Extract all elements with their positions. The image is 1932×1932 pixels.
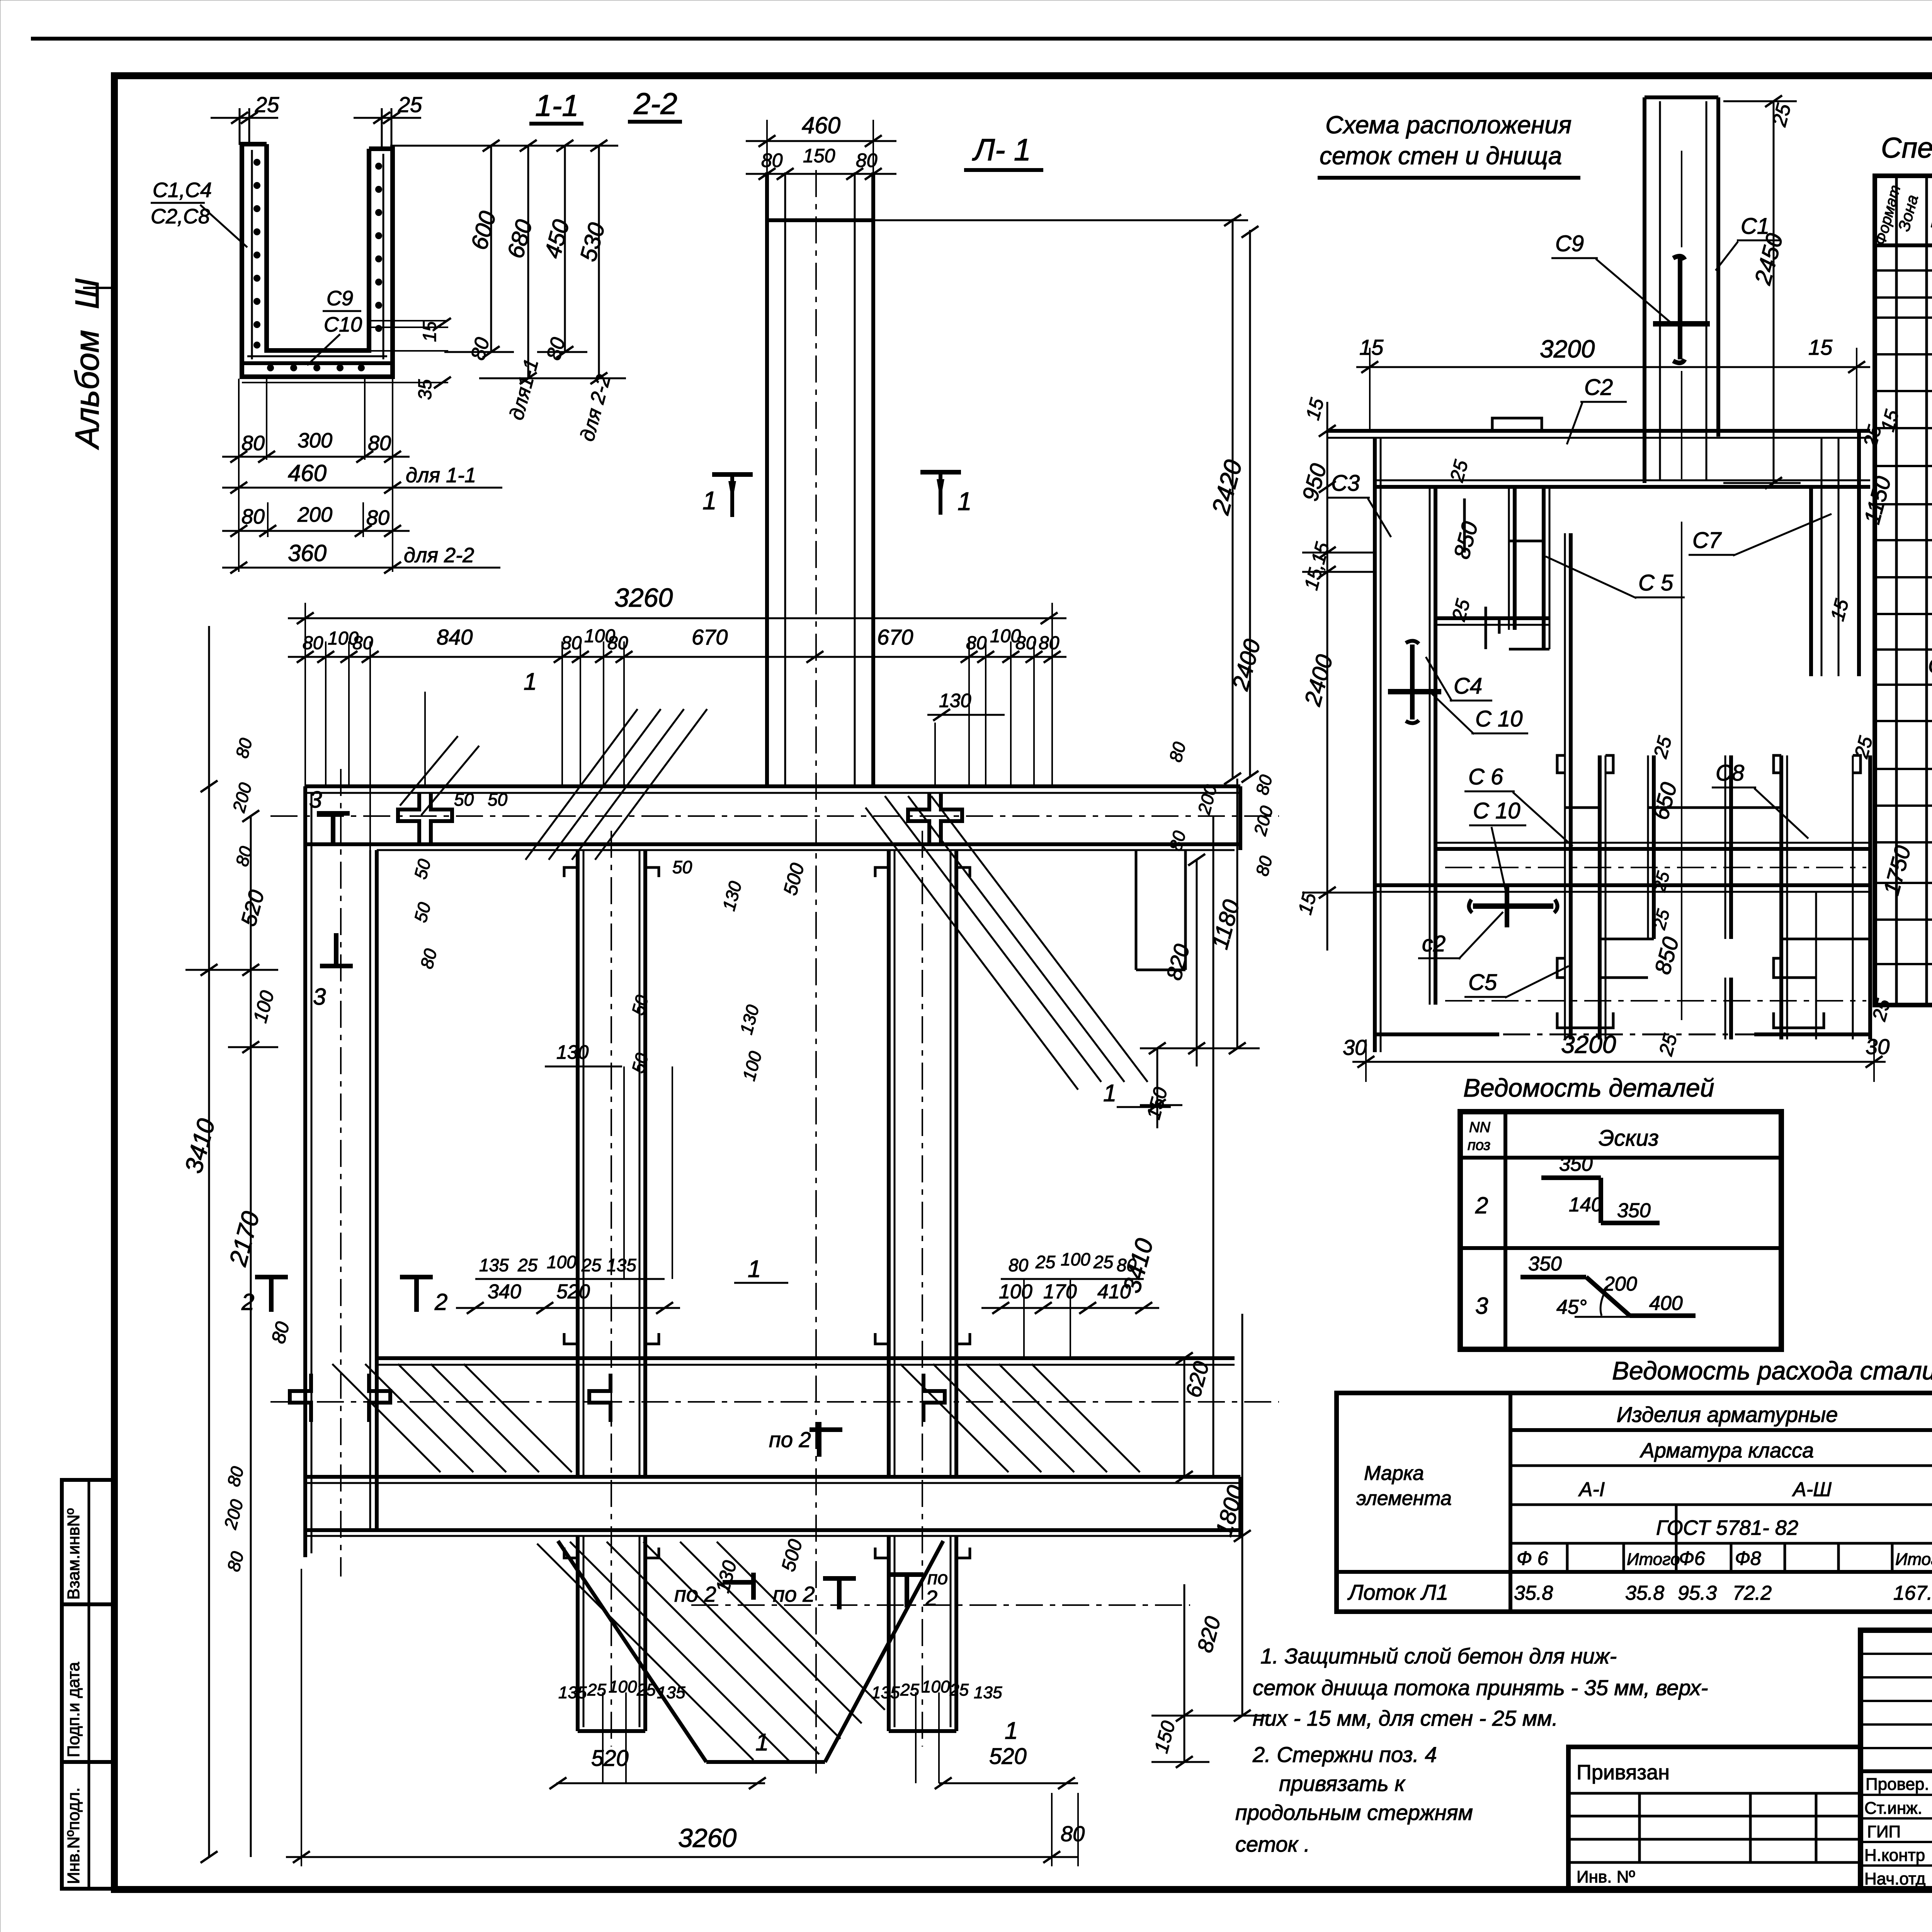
right wall verticals [1821, 438, 1823, 676]
svg-text:для1-1: для1-1 [505, 357, 543, 423]
left margin stamp boxes [62, 1480, 114, 1889]
svg-text:25: 25 [581, 1255, 602, 1275]
spec rows C1-C10 pos and GOST [1928, 322, 1932, 715]
svg-text:Схема расположения: Схема расположения [1325, 111, 1571, 139]
left wall verticals [1373, 438, 1377, 1052]
svg-text:по 2: по 2 [674, 1582, 716, 1606]
svg-text:15: 15 [420, 321, 440, 342]
svg-text:100: 100 [249, 988, 279, 1025]
svg-text:500: 500 [779, 861, 809, 898]
svg-text:100: 100 [922, 1677, 950, 1696]
svg-text:35: 35 [415, 379, 435, 400]
svg-text:Привязан: Привязан [1577, 1761, 1670, 1784]
svg-text:с2: с2 [1422, 931, 1446, 956]
svg-text:1: 1 [1005, 1718, 1018, 1744]
svg-text:80: 80 [231, 844, 256, 868]
svg-text:135: 135 [974, 1683, 1002, 1702]
svg-text:Инв. Nº: Инв. Nº [1577, 1867, 1635, 1886]
svg-text:3200: 3200 [1540, 335, 1595, 363]
svg-text:для 2-2: для 2-2 [576, 372, 615, 444]
svg-text:100: 100 [738, 1049, 765, 1083]
svg-text:Л- 1: Л- 1 [972, 133, 1031, 167]
C9 mesh I-bar [1673, 256, 1685, 260]
svg-text:530: 530 [575, 220, 610, 264]
svg-text:170: 170 [1043, 1281, 1077, 1303]
svg-text:для 2-2: для 2-2 [404, 544, 474, 567]
svg-text:Ф 6: Ф 6 [1517, 1548, 1548, 1569]
svg-text:130: 130 [712, 1558, 741, 1595]
svg-text:Изделия арматурные: Изделия арматурные [1617, 1402, 1838, 1427]
slab mesh bold line [242, 361, 390, 365]
svg-text:135: 135 [558, 1683, 587, 1702]
plan hatch bundles [332, 709, 1148, 1762]
2450 extension [1723, 482, 1801, 484]
svg-text:400: 400 [1649, 1292, 1683, 1315]
svg-text:80: 80 [761, 150, 783, 171]
svg-text:80: 80 [561, 633, 582, 653]
svg-text:130: 130 [736, 1003, 763, 1037]
svg-text:350: 350 [1559, 1153, 1593, 1175]
svg-text:Ведомость деталей: Ведомость деталей [1463, 1073, 1714, 1102]
svg-text:100: 100 [1061, 1249, 1090, 1269]
svg-text:15: 15 [1808, 335, 1833, 359]
svg-text:50: 50 [628, 1051, 652, 1075]
wall mesh thin lines [251, 150, 253, 359]
svg-text:200: 200 [1603, 1273, 1637, 1295]
svg-text:Инв.Nºподл.: Инв.Nºподл. [64, 1787, 83, 1884]
plan left dims [179, 626, 294, 1863]
top wall band [1327, 429, 1870, 433]
svg-text:150: 150 [1150, 1719, 1180, 1755]
svg-text:25: 25 [398, 92, 422, 117]
svg-text:2400: 2400 [1299, 652, 1338, 709]
svg-text:820: 820 [1162, 942, 1194, 983]
svg-text:35.8: 35.8 [1625, 1582, 1664, 1604]
svg-text:130: 130 [939, 690, 971, 711]
svg-text:80: 80 [1061, 1821, 1085, 1846]
left dim column [1327, 402, 1328, 951]
lower area outline pieces [1375, 1032, 1499, 1036]
tall wall column C1 [1643, 97, 1646, 483]
bottom trapezoid [558, 1541, 706, 1762]
svg-text:50: 50 [410, 900, 435, 924]
svg-text:130: 130 [556, 1041, 589, 1063]
svg-text:15: 15 [1294, 890, 1321, 917]
plan bottom 520 clusters [286, 1569, 1085, 1866]
plan axes dash-dot [270, 170, 1279, 1777]
bottom band horizontals [305, 1475, 1240, 1479]
album III vertical label [69, 278, 112, 450]
svg-text:1: 1 [702, 486, 717, 515]
svg-text:сеток .: сеток . [1235, 1832, 1310, 1856]
top band horizontals [305, 784, 1240, 788]
svg-text:Итого: Итого [1627, 1550, 1680, 1569]
plan top dim 3260 [288, 583, 1066, 850]
svg-text:520: 520 [989, 1744, 1027, 1769]
svg-text:360: 360 [288, 540, 327, 566]
svg-text:460: 460 [288, 460, 327, 486]
svg-text:950: 950 [1298, 461, 1332, 503]
svg-text:С 10: С 10 [1473, 798, 1520, 823]
plan lower axis dash-dot [691, 1604, 1190, 1606]
svg-text:1-1: 1-1 [535, 88, 579, 122]
svg-text:15: 15 [1827, 597, 1853, 623]
svg-text:15: 15 [1359, 335, 1384, 359]
svg-text:25: 25 [1768, 101, 1796, 129]
svg-text:520: 520 [591, 1746, 629, 1771]
mid verticals between bands [576, 850, 580, 1477]
plan mid-wall step details [564, 867, 970, 1558]
svg-text:520: 520 [236, 888, 269, 929]
specification table grid [1875, 176, 1932, 1005]
svg-text:80: 80 [1252, 772, 1276, 797]
svg-text:1150: 1150 [1859, 474, 1896, 527]
U labels C1C4 C2C8 [151, 179, 247, 247]
plan cross joints [290, 792, 962, 1422]
svg-text:300: 300 [298, 429, 332, 452]
svg-text:140: 140 [1569, 1194, 1602, 1216]
plan po2 markers [674, 1422, 948, 1610]
sheet outer border top line [31, 37, 1932, 41]
details list table [1460, 1073, 1781, 1349]
svg-text:200: 200 [297, 503, 332, 526]
svg-text:30: 30 [1343, 1035, 1367, 1060]
svg-text:80: 80 [1165, 740, 1190, 764]
svg-text:Марка: Марка [1364, 1462, 1424, 1485]
svg-text:1: 1 [957, 487, 972, 515]
mesh lower horizontals pair [1600, 938, 1654, 940]
plan top channel walls [767, 172, 873, 788]
svg-text:50: 50 [488, 789, 508, 810]
svg-text:Взам.инвNº: Взам.инвNº [64, 1508, 83, 1600]
bottom 3200 dim [1352, 1061, 1886, 1063]
svg-text:80: 80 [1039, 633, 1060, 653]
mesh layout labels [1327, 214, 1832, 998]
svg-text:1. Защитный слой бетон для: 1. Защитный слой бетон для ниж- [1260, 1644, 1617, 1668]
svg-text:С3: С3 [1331, 471, 1360, 496]
svg-text:200: 200 [220, 1497, 247, 1532]
svg-text:С2: С2 [1584, 375, 1613, 400]
svg-text:2420: 2420 [1206, 457, 1248, 518]
svg-text:элемента: элемента [1356, 1487, 1452, 1510]
svg-text:Н.контр: Н.контр [1864, 1846, 1925, 1865]
svg-text:80: 80 [1009, 1255, 1029, 1275]
svg-text:30: 30 [1866, 1034, 1889, 1059]
svg-text:по 2: по 2 [773, 1582, 815, 1606]
svg-text:1750: 1750 [1879, 843, 1916, 898]
plan section markers [241, 472, 972, 1315]
plan title L-1 [964, 133, 1043, 170]
svg-text:25: 25 [636, 1680, 656, 1699]
small mesh stems in band area [1509, 540, 1544, 543]
mesh right inner verticals [1725, 755, 1726, 939]
svg-text:С 5: С 5 [1638, 570, 1673, 595]
svg-text:Итого: Итого [1895, 1550, 1932, 1569]
svg-text:150: 150 [803, 145, 835, 167]
svg-text:50: 50 [410, 857, 435, 881]
svg-text:80: 80 [607, 633, 628, 653]
svg-text:Ф8: Ф8 [1735, 1548, 1761, 1569]
svg-text:них - 15 мм, для стен - 25: них - 15 мм, для стен - 25 мм. [1253, 1706, 1558, 1730]
svg-text:135: 135 [657, 1683, 685, 1702]
svg-text:850: 850 [1449, 519, 1483, 561]
privyazan box [1568, 1747, 1861, 1889]
svg-text:А-Ш: А-Ш [1792, 1478, 1832, 1501]
svg-text:100: 100 [609, 1677, 637, 1696]
svg-text:3: 3 [313, 984, 326, 1010]
U-section drawing top-left [242, 144, 393, 377]
svg-text:1: 1 [524, 668, 537, 695]
svg-text:500: 500 [777, 1537, 807, 1574]
svg-text:Альбом: Альбом [69, 330, 106, 450]
svg-text:350: 350 [1617, 1199, 1651, 1222]
svg-text:80: 80 [223, 1464, 248, 1488]
plan mid small dims left cross [410, 690, 1005, 1083]
detail 3 sketch [1520, 1253, 1696, 1318]
svg-text:Арматура класса: Арматура класса [1639, 1439, 1814, 1462]
plan mid lower small dims [456, 1249, 1159, 1595]
svg-text:Эскиз: Эскиз [1599, 1126, 1659, 1151]
svg-text:Провер.: Провер. [1866, 1775, 1929, 1794]
svg-text:Ш: Ш [69, 278, 106, 309]
svg-text:45°: 45° [1556, 1296, 1587, 1318]
svg-text:100: 100 [547, 1252, 577, 1272]
svg-text:Лоток Л1: Лоток Л1 [1347, 1580, 1448, 1604]
U bottom dim strings [222, 379, 502, 573]
plan right dims [873, 214, 1277, 1768]
svg-text:3410: 3410 [179, 1116, 221, 1176]
svg-text:80: 80 [241, 432, 265, 455]
svg-text:72.2: 72.2 [1733, 1582, 1772, 1604]
svg-text:80: 80 [368, 432, 391, 455]
svg-text:80: 80 [416, 946, 441, 971]
svg-text:80: 80 [467, 335, 494, 362]
svg-text:100: 100 [999, 1281, 1032, 1303]
svg-text:25: 25 [1655, 1031, 1681, 1058]
svg-text:поз: поз [1468, 1137, 1490, 1153]
band notch bump [1492, 418, 1542, 431]
mid horizontal pair [377, 1356, 1235, 1360]
U labels C9 C10 [307, 287, 362, 365]
plan top mid verticals thin extensions [425, 692, 1070, 1783]
svg-text:25: 25 [255, 92, 279, 117]
svg-text:670: 670 [692, 625, 728, 649]
svg-text:С7: С7 [1692, 528, 1722, 553]
svg-text:С8: С8 [1716, 760, 1744, 786]
svg-text:С4: С4 [1454, 673, 1482, 699]
spec table header texts [1872, 183, 1932, 247]
svg-text:340: 340 [488, 1281, 521, 1303]
svg-text:80: 80 [267, 1319, 294, 1345]
svg-text:продольным стержням: продольным стержням [1235, 1800, 1473, 1825]
svg-text:Ведомость расхода стали: Ведомость расхода стали на элемент, кг [1612, 1356, 1932, 1385]
verticals below bottom band [576, 1536, 580, 1731]
mesh layout title [1318, 111, 1580, 178]
svg-text:600: 600 [466, 208, 501, 252]
svg-text:25: 25 [1093, 1252, 1114, 1272]
svg-text:35.8: 35.8 [1514, 1582, 1553, 1604]
svg-text:2: 2 [1475, 1192, 1488, 1218]
mesh notched outlines near band2 [1557, 755, 1565, 773]
svg-text:сеток стен и днища: сеток стен и днища [1320, 142, 1562, 170]
svg-text:200: 200 [1250, 804, 1277, 838]
small horizontal stems lower [1565, 806, 1600, 809]
U rebar dots [253, 159, 382, 371]
svg-text:С10: С10 [1928, 653, 1932, 678]
svg-text:Ф6: Ф6 [1679, 1548, 1705, 1569]
svg-text:460: 460 [802, 112, 840, 138]
svg-text:2: 2 [925, 1586, 937, 1610]
right end closures [1238, 786, 1242, 850]
svg-text:520: 520 [556, 1281, 590, 1303]
title block frame [1861, 1630, 1932, 1889]
svg-text:80: 80 [1117, 1255, 1137, 1275]
svg-text:Ст.инж.: Ст.инж. [1864, 1799, 1922, 1818]
mesh stem feet [1557, 1012, 1613, 1028]
U 15/35 reference lines [242, 318, 451, 400]
svg-text:NN: NN [1469, 1119, 1490, 1136]
svg-text:350: 350 [1528, 1253, 1562, 1275]
svg-text:С 6: С 6 [1468, 764, 1503, 789]
3200 top dim [1356, 366, 1870, 368]
svg-text:450: 450 [539, 217, 575, 261]
svg-text:80: 80 [366, 506, 389, 529]
steel table texts [1347, 1402, 1932, 1604]
svg-text:1: 1 [1103, 1080, 1116, 1107]
svg-text:3260: 3260 [614, 583, 673, 612]
svg-text:15,15: 15,15 [1300, 540, 1334, 592]
svg-text:840: 840 [437, 625, 473, 649]
svg-text:сеток днища потока принять -: сеток днища потока принять - 35 мм, верх… [1253, 1675, 1708, 1700]
svg-text:50: 50 [672, 857, 692, 877]
svg-text:3: 3 [1475, 1293, 1488, 1319]
svg-text:1: 1 [748, 1256, 761, 1282]
svg-text:по 2: по 2 [769, 1427, 811, 1452]
svg-text:135: 135 [871, 1683, 900, 1702]
svg-text:Подп.и дата: Подп.и дата [64, 1662, 83, 1757]
mesh layout drawing [1327, 97, 1870, 1052]
svg-text:670: 670 [877, 625, 913, 649]
svg-text:410: 410 [1097, 1281, 1131, 1303]
svg-text:С1,С4: С1,С4 [153, 179, 212, 202]
svg-text:2: 2 [241, 1289, 254, 1315]
svg-text:15: 15 [1302, 396, 1328, 422]
svg-text:850: 850 [1650, 934, 1684, 977]
svg-text:С2,С8: С2,С8 [151, 205, 210, 228]
title block signature labels [1864, 1775, 1932, 1888]
svg-text:3: 3 [309, 787, 322, 813]
C10 horizontal I-bar [1473, 903, 1553, 909]
svg-text:95.3: 95.3 [1678, 1582, 1717, 1604]
svg-text:135: 135 [479, 1255, 509, 1275]
svg-text:135: 135 [607, 1255, 636, 1275]
svg-text:2450: 2450 [1750, 231, 1788, 287]
svg-text:2-2: 2-2 [633, 87, 677, 121]
mesh C3 bottom horizontals [1435, 616, 1549, 620]
plan top channel dims 460 / 80 150 80 [746, 112, 896, 180]
mesh layout dims [1294, 95, 1916, 1082]
svg-text:ГИП: ГИП [1867, 1822, 1901, 1841]
svg-text:80: 80 [1252, 854, 1276, 878]
svg-text:80: 80 [241, 505, 265, 528]
svg-text:ГОСТ 5781- 82: ГОСТ 5781- 82 [1656, 1516, 1798, 1539]
svg-text:25: 25 [1035, 1252, 1056, 1272]
svg-text:25: 25 [517, 1255, 538, 1275]
svg-text:С10: С10 [324, 313, 362, 336]
U right dim columns [390, 140, 626, 444]
svg-text:167.5: 167.5 [1893, 1582, 1932, 1604]
svg-text:25: 25 [949, 1680, 969, 1699]
steel consumption table grid [1337, 1393, 1932, 1612]
svg-text:для 1-1: для 1-1 [406, 464, 476, 487]
svg-text:80: 80 [1015, 633, 1036, 653]
U inner contour [267, 144, 369, 350]
section titles 1-1 2-2 [529, 87, 682, 124]
svg-text:1: 1 [755, 1729, 769, 1756]
svg-text:680: 680 [502, 217, 537, 261]
svg-text:2: 2 [434, 1289, 447, 1315]
centre axes [1681, 522, 1682, 1020]
svg-text:50: 50 [628, 993, 652, 1017]
svg-text:50: 50 [454, 789, 474, 810]
svg-text:С9: С9 [1555, 231, 1584, 256]
svg-text:80: 80 [223, 1549, 248, 1573]
svg-text:80: 80 [856, 150, 878, 171]
svg-text:3260: 3260 [678, 1823, 736, 1853]
svg-text:Нач.отд: Нач.отд [1864, 1869, 1925, 1888]
C4/C10 I-bar on left wall [1410, 645, 1415, 719]
svg-text:Спецификация к монолитному: Спецификация к монолитному лотку Л1. [1881, 132, 1932, 164]
mid band [1435, 842, 1870, 844]
svg-text:С9: С9 [327, 287, 353, 310]
svg-text:2. Стержни поз. 4: 2. Стержни поз. 4 [1252, 1742, 1437, 1767]
2450 right dim [1723, 100, 1797, 102]
svg-text:820: 820 [1192, 1614, 1225, 1655]
central mesh verticals [1508, 485, 1510, 630]
plan pos1 leaders [524, 668, 1171, 1756]
left wall [303, 786, 307, 1557]
plan main walls [305, 786, 1240, 1762]
svg-text:2170: 2170 [224, 1208, 265, 1269]
svg-text:С 10: С 10 [1475, 706, 1523, 731]
svg-text:80: 80 [231, 736, 256, 760]
svg-text:привязать к: привязать к [1279, 1771, 1406, 1796]
detail 2 sketch [1541, 1153, 1660, 1223]
U outer contour [242, 144, 393, 377]
svg-text:С5: С5 [1468, 970, 1497, 995]
plan right band end step [1136, 850, 1185, 970]
svg-text:130: 130 [718, 879, 745, 913]
svg-text:200: 200 [228, 781, 255, 815]
U top 25 dims [211, 92, 422, 149]
svg-text:А-I: А-I [1578, 1478, 1605, 1501]
notes text [1235, 1644, 1708, 1856]
svg-text:3200: 3200 [1561, 1031, 1616, 1058]
